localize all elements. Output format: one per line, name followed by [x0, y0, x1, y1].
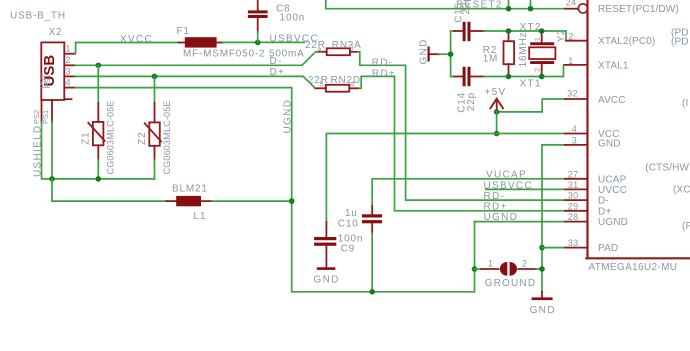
svg-text:BLM21: BLM21 — [172, 183, 208, 194]
wire RD+ from RN2D to pin 29 — [360, 76, 565, 210]
svg-text:22p: 22p — [466, 92, 477, 111]
junction crystal bottom — [539, 74, 545, 80]
connector X2 pin 1 stub — [64, 53, 75, 55]
svg-text:GROUND: GROUND — [485, 278, 537, 289]
svg-text:GND: GND — [418, 38, 429, 64]
svg-text:1: 1 — [350, 43, 354, 52]
varistor Z1 — [88, 65, 104, 179]
wire VCC rail to pin 4 — [326, 134, 565, 223]
svg-text:(XCK: (XCK — [673, 185, 690, 196]
junction R2 top — [506, 28, 512, 34]
svg-text:AVCC: AVCC — [598, 95, 626, 106]
svg-text:2: 2 — [568, 32, 573, 42]
svg-text:1: 1 — [66, 44, 71, 54]
wire UGND to pin 28 — [475, 221, 566, 223]
IC U3 pin 3 GND stub — [565, 144, 588, 146]
junction +5V — [494, 109, 500, 115]
wire XT1 (bottom crystal net) — [484, 65, 565, 77]
capacitor C9 — [314, 222, 336, 267]
svg-text:4: 4 — [350, 79, 354, 88]
svg-text:(CTS/HW: (CTS/HW — [645, 163, 689, 174]
svg-text:3: 3 — [66, 66, 71, 76]
IC U3 pin 24 RESET stub with circle — [565, 4, 588, 13]
connector X2 shield pin PS1 stub — [51, 100, 53, 122]
wire UGND from X2 pin 4 down and across bottom — [75, 88, 475, 292]
connector X2 pin 4 stub — [64, 87, 75, 89]
IC U3 pin 29 D+ stub — [565, 210, 588, 212]
ferrite bead L1 — [167, 196, 292, 206]
svg-text:XT2: XT2 — [520, 22, 542, 33]
capacitor C14 — [451, 67, 484, 86]
junction L1 to UGND vertical — [289, 198, 295, 204]
IC U3 pin 31 UVCC stub — [565, 188, 588, 190]
svg-text:32: 32 — [567, 89, 578, 99]
capacitor C15 — [451, 22, 484, 41]
svg-text:L1: L1 — [194, 211, 207, 222]
svg-text:RD+: RD+ — [372, 69, 396, 80]
supply +5V symbol — [490, 99, 503, 112]
wire AVCC from +5V to pin 32 — [497, 99, 565, 112]
svg-text:(P: (P — [682, 221, 690, 232]
svg-text:33: 33 — [568, 238, 579, 248]
svg-text:Z2: Z2 — [137, 132, 148, 145]
wire USHIELD rail — [42, 122, 155, 179]
svg-text:1: 1 — [533, 37, 542, 41]
IC U3 pin 33 PAD stub — [565, 247, 588, 249]
svg-text:UGND: UGND — [484, 212, 519, 223]
junction D- at Z1 — [96, 63, 102, 69]
svg-text:RD-: RD- — [484, 191, 506, 202]
svg-text:28: 28 — [568, 212, 579, 222]
svg-text:D+: D+ — [598, 206, 611, 217]
svg-text:RN2D: RN2D — [331, 75, 361, 86]
svg-text:29: 29 — [568, 201, 579, 211]
svg-text:1: 1 — [568, 56, 573, 66]
svg-text:ATMEGA16U2-MU: ATMEGA16U2-MU — [589, 262, 678, 273]
junction RESET2 branch 1 — [506, 6, 512, 12]
junction RESET2 branch 2 — [528, 6, 534, 12]
ground symbol GND below C9 — [314, 267, 340, 285]
wire XT2 (top crystal net) — [484, 31, 566, 41]
wire RESET2 rail — [326, 0, 565, 9]
svg-text:PAD: PAD — [598, 243, 618, 254]
wire vertical joining C15/C14 left — [450, 31, 452, 77]
svg-text:(I: (I — [682, 98, 688, 109]
svg-text:27: 27 — [568, 169, 579, 179]
svg-text:USBVCC: USBVCC — [484, 180, 533, 191]
junction GND to C15/C14 — [448, 51, 454, 57]
svg-text:UCAP: UCAP — [598, 174, 627, 185]
fuse F1 — [179, 37, 224, 47]
crystal Y2 16MHz — [529, 31, 555, 77]
wire RD- from RN2A to pin 30 — [358, 52, 565, 200]
svg-text:1: 1 — [488, 259, 493, 269]
IC U3 pin 32 AVCC stub — [565, 98, 588, 100]
svg-text:RD-: RD- — [372, 57, 394, 68]
junction UGND at GROUND pin 1 — [472, 266, 478, 272]
IC U3 pin 2 XTAL2 stub — [566, 40, 588, 42]
svg-text:MF-MSMF050-2 500mA: MF-MSMF050-2 500mA — [183, 49, 305, 60]
svg-text:2: 2 — [533, 68, 542, 72]
svg-text:100n: 100n — [280, 13, 305, 24]
svg-text:4: 4 — [572, 124, 577, 134]
junction on USBVCC at C8 — [255, 40, 261, 46]
IC U3 pin 27 UCAP stub — [565, 178, 588, 180]
junction R2 bottom — [506, 74, 512, 80]
svg-text:24: 24 — [566, 0, 577, 8]
connector X2 pin 3 stub — [64, 75, 75, 77]
junction D+ at Z2 — [152, 74, 158, 80]
resistor RN2A 22R — [318, 48, 358, 55]
wire RESET2 branch 2 (cut off top) — [530, 0, 532, 9]
ground symbol GND at bottom — [530, 292, 556, 316]
resistor RN2D 22R — [316, 85, 360, 92]
wire D- from X2 pin 2 — [75, 52, 318, 66]
IC U3 pin 30 D- stub — [565, 199, 588, 201]
svg-text:RESET(PC1/DW): RESET(PC1/DW) — [598, 4, 679, 15]
svg-text:2: 2 — [66, 55, 71, 65]
wire USBVCC to pin 31 — [486, 188, 565, 190]
svg-text:Z1: Z1 — [81, 132, 92, 145]
svg-text:D-: D- — [270, 56, 283, 67]
svg-text:XT1: XT1 — [520, 78, 542, 89]
svg-text:D+: D+ — [270, 67, 286, 78]
svg-text:(PD: (PD — [671, 37, 689, 48]
wire VUCAP from C10 to pin 27 — [372, 179, 565, 206]
svg-text:+5V: +5V — [485, 87, 507, 98]
wire RESET2 branch 1 (cut off top) — [508, 0, 510, 9]
junction USHIELD at PS1 — [49, 176, 55, 182]
svg-text:VUCAP: VUCAP — [486, 170, 527, 181]
svg-text:XTAL2(PC0): XTAL2(PC0) — [598, 36, 655, 47]
svg-text:22p: 22p — [461, 0, 472, 15]
svg-text:C10: C10 — [338, 218, 359, 229]
svg-text:5: 5 — [320, 79, 324, 88]
connector X2 USB-B_TH body — [41, 42, 71, 100]
junction +5V on VCC rail — [494, 131, 500, 137]
IC U3 pin 4 VCC stub — [565, 133, 588, 135]
wire USHIELD down to L1 rail — [52, 179, 167, 201]
svg-text:GND: GND — [530, 305, 556, 316]
svg-text:1u: 1u — [345, 208, 358, 219]
junction USHIELD at Z1 — [96, 176, 102, 182]
capacitor C10 — [362, 206, 382, 292]
wire XVCC from X2 pin 1 — [76, 43, 179, 54]
wire +5V down to VCC rail — [496, 112, 498, 134]
svg-text:2: 2 — [522, 259, 527, 269]
svg-text:RN2A: RN2A — [332, 40, 362, 51]
junction GND at GROUND pin 2 — [539, 266, 545, 272]
svg-text:PS1: PS1 — [41, 110, 50, 124]
svg-text:F1: F1 — [177, 26, 190, 37]
wire USBVCC (top) — [223, 41, 304, 43]
svg-text:UGND: UGND — [598, 217, 628, 228]
resistor R2 1M — [504, 31, 515, 77]
svg-text:CG0603MLC-05E: CG0603MLC-05E — [106, 100, 116, 174]
svg-text:USB-B_TH: USB-B_TH — [10, 11, 66, 22]
svg-text:UVCC: UVCC — [598, 185, 627, 196]
svg-text:1M: 1M — [483, 53, 499, 64]
IC U3 pin 28 UGND stub — [565, 221, 588, 223]
varistor Z2 — [145, 76, 161, 178]
svg-text:16MHz: 16MHz — [518, 32, 529, 68]
svg-text:22R: 22R — [305, 40, 326, 51]
wire D+ from X2 pin 3 — [75, 76, 315, 88]
wire pin 33 PAD — [542, 247, 565, 249]
wire GND from IC pin 3 down — [542, 145, 565, 292]
svg-text:31: 31 — [568, 180, 579, 190]
svg-text:UGND: UGND — [283, 99, 294, 134]
svg-text:D-: D- — [598, 196, 609, 207]
svg-text:RD+: RD+ — [484, 202, 508, 213]
svg-text:PS1: PS1 — [43, 74, 52, 88]
solder jumper GROUND — [475, 262, 543, 276]
svg-text:30: 30 — [568, 191, 579, 201]
svg-text:GND: GND — [598, 138, 621, 149]
svg-text:XTAL1: XTAL1 — [598, 60, 629, 71]
ground symbol GND (left of C15/C14) — [428, 47, 451, 62]
svg-text:8: 8 — [318, 46, 322, 55]
junction crystal top — [539, 28, 545, 34]
svg-text:CG0603MLC-05E: CG0603MLC-05E — [162, 100, 172, 174]
junction GND at pin 33 wire — [539, 245, 545, 251]
svg-text:GND: GND — [314, 275, 340, 286]
IC U3 pin 1 XTAL1 stub — [565, 64, 588, 66]
svg-text:C9: C9 — [341, 244, 355, 255]
IC U3 ATMEGA16U2-MU border — [586, 0, 690, 258]
svg-text:XVCC: XVCC — [120, 34, 153, 45]
svg-text:X2: X2 — [49, 27, 63, 38]
svg-text:3: 3 — [572, 135, 577, 145]
connector X2 pin 2 stub — [64, 64, 75, 66]
connector X2 shield pin PS2 stub — [41, 100, 43, 122]
svg-text:PS2: PS2 — [32, 110, 41, 124]
junction C10 on UGND bottom rail — [369, 289, 375, 295]
capacitor C8 — [248, 0, 268, 42]
svg-text:4: 4 — [66, 78, 71, 88]
svg-text:22R: 22R — [308, 75, 329, 86]
